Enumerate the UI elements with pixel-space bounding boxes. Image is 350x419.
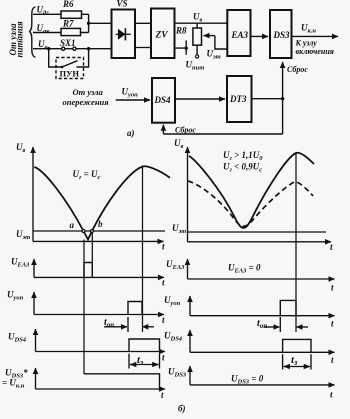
svg-text:R6: R6 — [62, 0, 74, 9]
svg-text:t: t — [162, 353, 165, 363]
svg-text:tз: tз — [291, 354, 297, 367]
svg-text:UDS3 = 0: UDS3 = 0 — [231, 374, 264, 386]
svg-text:Uв: Uв — [174, 138, 184, 150]
svg-text:включения: включения — [296, 47, 334, 56]
svg-text:ZV: ZV — [155, 31, 169, 41]
svg-text:Uв: Uв — [16, 142, 26, 154]
svg-text:б): б) — [178, 404, 186, 414]
svg-text:питания: питания — [15, 21, 25, 58]
svg-text:SX1: SX1 — [60, 38, 76, 48]
svg-text:DT3: DT3 — [229, 94, 247, 104]
svg-text:DS4: DS4 — [154, 95, 172, 105]
svg-text:UDS4: UDS4 — [164, 331, 183, 343]
svg-text:UDS3: UDS3 — [168, 367, 187, 379]
svg-text:UEA3: UEA3 — [11, 257, 30, 269]
svg-text:Uэт: Uэт — [172, 223, 186, 235]
svg-text:b: b — [98, 219, 103, 229]
svg-text:t: t — [330, 242, 333, 252]
svg-text:t: t — [162, 278, 165, 288]
svg-text:t: t — [162, 242, 165, 252]
svg-text:Uэт: Uэт — [207, 49, 221, 61]
svg-text:а): а) — [127, 128, 135, 138]
svg-text:Uг > 1,1U0: Uг > 1,1U0 — [223, 150, 263, 162]
svg-text:UDS4: UDS4 — [8, 332, 27, 344]
svg-text:t: t — [330, 390, 333, 400]
svg-text:t: t — [162, 315, 165, 325]
svg-text:DS3: DS3 — [273, 30, 291, 40]
svg-text:От узла: От узла — [73, 87, 104, 97]
svg-text:Uг < 0,9Uс: Uг < 0,9Uс — [223, 162, 262, 174]
svg-text:Uв: Uв — [193, 12, 203, 24]
svg-text:Сброс: Сброс — [175, 126, 196, 135]
svg-text:опережения: опережения — [63, 97, 110, 107]
svg-text:t: t — [331, 319, 334, 329]
svg-text:R7: R7 — [62, 19, 74, 29]
svg-text:Uг = Uс: Uг = Uс — [73, 169, 101, 181]
svg-text:EA3: EA3 — [231, 30, 249, 40]
svg-text:Uуоп: Uуоп — [7, 290, 24, 302]
svg-text:t: t — [331, 355, 334, 365]
svg-text:ПУН: ПУН — [60, 69, 80, 79]
svg-text:Uэт: Uэт — [16, 229, 30, 241]
svg-text:Uк.н: Uк.н — [301, 23, 316, 35]
svg-text:UEA3 = 0: UEA3 = 0 — [228, 263, 261, 275]
svg-text:Сброс: Сброс — [287, 65, 308, 74]
svg-text:t: t — [161, 390, 164, 400]
svg-text:Uпит: Uпит — [186, 60, 205, 72]
svg-text:R8: R8 — [175, 26, 187, 36]
svg-text:a: a — [70, 220, 75, 230]
svg-text:Uуоп: Uуоп — [122, 87, 139, 99]
svg-text:VS: VS — [117, 0, 128, 9]
svg-text:tоп: tоп — [104, 317, 114, 329]
svg-text:t: t — [331, 283, 334, 293]
svg-text:Uуоп: Uуоп — [164, 295, 181, 307]
svg-text:tз: tз — [137, 354, 143, 367]
svg-text:tоп: tоп — [257, 318, 267, 330]
svg-text:UEA3: UEA3 — [166, 259, 185, 271]
